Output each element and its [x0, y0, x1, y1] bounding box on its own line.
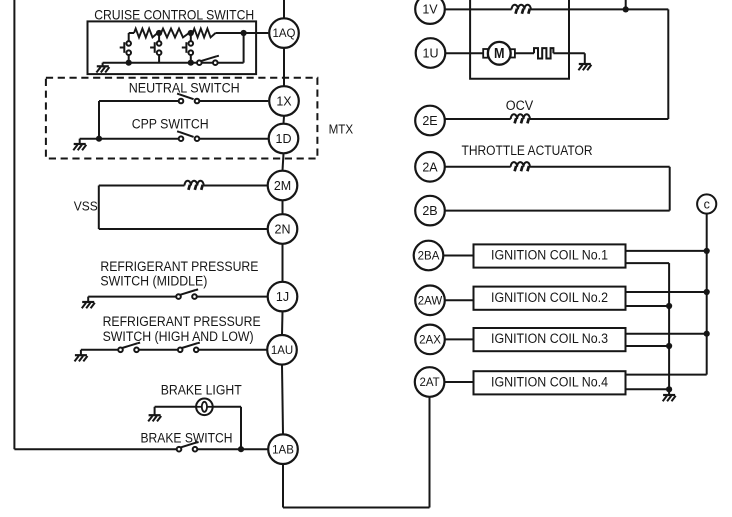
- svg-text:1U: 1U: [423, 47, 439, 61]
- svg-text:2M: 2M: [274, 179, 291, 193]
- svg-text:1AU: 1AU: [271, 345, 293, 357]
- svg-text:1AB: 1AB: [272, 444, 294, 456]
- svg-text:1AQ: 1AQ: [272, 28, 295, 40]
- svg-text:2N: 2N: [275, 223, 291, 237]
- svg-text:REFRIGERANT PRESSURE: REFRIGERANT PRESSURE: [103, 314, 261, 329]
- svg-text:IGNITION COIL No.1: IGNITION COIL No.1: [491, 248, 608, 263]
- svg-text:SWITCH (HIGH AND LOW): SWITCH (HIGH AND LOW): [103, 329, 254, 344]
- svg-text:REFRIGERANT PRESSURE: REFRIGERANT PRESSURE: [100, 259, 258, 274]
- svg-text:CRUISE CONTROL SWITCH: CRUISE CONTROL SWITCH: [94, 7, 254, 23]
- svg-text:NEUTRAL SWITCH: NEUTRAL SWITCH: [129, 81, 240, 96]
- svg-text:IGNITION COIL No.4: IGNITION COIL No.4: [491, 374, 608, 389]
- svg-text:IGNITION COIL No.3: IGNITION COIL No.3: [491, 331, 608, 346]
- svg-text:c: c: [704, 197, 710, 211]
- svg-text:1X: 1X: [276, 95, 292, 109]
- svg-text:2BA: 2BA: [418, 251, 440, 263]
- svg-text:SWITCH (MIDDLE): SWITCH (MIDDLE): [100, 273, 207, 288]
- svg-text:M: M: [494, 46, 505, 62]
- svg-text:1J: 1J: [276, 290, 289, 304]
- svg-text:BRAKE SWITCH: BRAKE SWITCH: [141, 430, 233, 445]
- svg-text:MTX: MTX: [329, 122, 354, 137]
- svg-text:THROTTLE ACTUATOR: THROTTLE ACTUATOR: [462, 143, 593, 158]
- svg-text:1D: 1D: [276, 132, 292, 146]
- svg-text:OCV: OCV: [506, 98, 534, 113]
- svg-text:2AT: 2AT: [419, 377, 439, 389]
- svg-text:2B: 2B: [422, 204, 437, 218]
- svg-text:2A: 2A: [422, 160, 438, 174]
- svg-text:1V: 1V: [422, 3, 438, 17]
- svg-text:IGNITION COIL No.2: IGNITION COIL No.2: [491, 290, 608, 305]
- svg-text:BRAKE LIGHT: BRAKE LIGHT: [161, 382, 242, 397]
- svg-text:VSS: VSS: [74, 198, 98, 213]
- svg-text:CPP SWITCH: CPP SWITCH: [132, 117, 209, 132]
- svg-text:2AX: 2AX: [419, 335, 441, 347]
- svg-text:2E: 2E: [422, 114, 437, 128]
- svg-text:2AW: 2AW: [418, 295, 443, 307]
